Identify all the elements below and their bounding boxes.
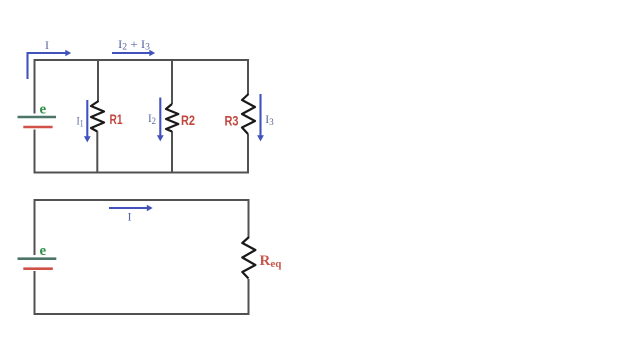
arrow current I2	[157, 98, 164, 142]
svg-text:R3: R3	[225, 113, 239, 129]
svg-text:e: e	[40, 102, 47, 118]
arrow current I3	[257, 94, 264, 141]
wire top circuit outer loop	[35, 60, 249, 173]
svg-text:I3: I3	[265, 112, 274, 128]
arrow current I2+I3	[112, 50, 155, 57]
battery e (top circuit)	[18, 117, 57, 127]
svg-text:e: e	[40, 243, 47, 259]
battery e (bottom circuit)	[18, 259, 57, 269]
wire branch R1	[96, 60, 99, 173]
svg-text:I2: I2	[148, 111, 156, 127]
svg-text:I1: I1	[77, 114, 84, 130]
resistor Req	[242, 237, 255, 279]
svg-text:I2 + I3: I2 + I3	[118, 37, 151, 52]
svg-text:R2: R2	[181, 112, 195, 128]
arrow current I (bottom circuit)	[109, 205, 153, 212]
svg-text:Req: Req	[260, 253, 283, 270]
arrow current I (top-left)	[28, 50, 72, 79]
wire branch R2	[171, 60, 173, 173]
resistor R2	[166, 104, 178, 132]
resistor R1	[91, 101, 104, 132]
svg-text:R1: R1	[110, 111, 123, 127]
svg-text:I: I	[128, 210, 132, 224]
resistor R3	[242, 94, 255, 134]
arrow current I1	[84, 100, 91, 142]
wire bottom circuit outer loop	[35, 200, 249, 314]
svg-text:I: I	[45, 38, 49, 52]
